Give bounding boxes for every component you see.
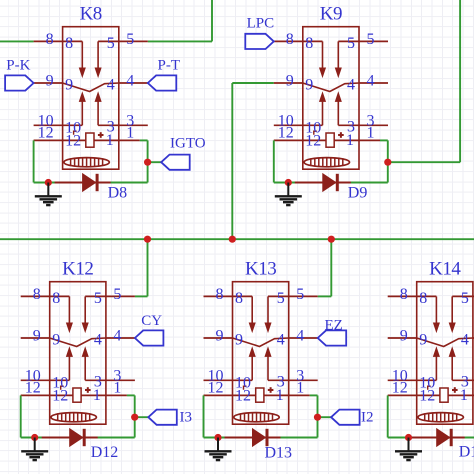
svg-text:4: 4 (347, 77, 355, 94)
svg-text:12: 12 (305, 132, 321, 149)
svg-text:12: 12 (38, 124, 54, 141)
svg-text:1: 1 (106, 132, 114, 149)
svg-text:9: 9 (419, 332, 427, 349)
svg-text:8: 8 (286, 31, 294, 48)
svg-text:9: 9 (235, 332, 243, 349)
svg-text:1: 1 (346, 132, 354, 149)
svg-text:9: 9 (65, 77, 73, 94)
svg-text:5: 5 (113, 286, 121, 303)
svg-text:I3: I3 (180, 410, 193, 426)
svg-text:5: 5 (277, 290, 285, 307)
svg-text:4: 4 (367, 73, 375, 90)
svg-text:EZ: EZ (325, 318, 343, 334)
svg-text:12: 12 (278, 124, 294, 141)
svg-text:D14: D14 (459, 444, 474, 461)
svg-text:4: 4 (277, 332, 285, 349)
svg-text:1: 1 (460, 387, 468, 404)
svg-text:P-K: P-K (6, 58, 30, 74)
svg-text:8: 8 (65, 35, 73, 52)
svg-text:1: 1 (367, 124, 375, 141)
svg-text:IGTO: IGTO (170, 136, 206, 152)
svg-text:12: 12 (25, 379, 41, 396)
svg-text:12: 12 (235, 387, 251, 404)
svg-text:4: 4 (126, 73, 134, 90)
svg-text:5: 5 (367, 31, 375, 48)
svg-text:9: 9 (46, 73, 54, 90)
svg-text:K8: K8 (80, 4, 102, 25)
svg-text:1: 1 (296, 379, 304, 396)
svg-text:4: 4 (113, 328, 121, 345)
svg-text:D12: D12 (91, 444, 119, 461)
svg-text:1: 1 (93, 387, 101, 404)
svg-text:12: 12 (65, 132, 81, 149)
svg-text:9: 9 (286, 73, 294, 90)
svg-text:9: 9 (52, 332, 60, 349)
svg-text:P-T: P-T (158, 58, 181, 74)
svg-text:5: 5 (296, 286, 304, 303)
svg-text:K12: K12 (62, 259, 93, 280)
svg-text:9: 9 (216, 328, 224, 345)
svg-text:1: 1 (276, 387, 284, 404)
svg-text:8: 8 (419, 290, 427, 307)
svg-text:8: 8 (305, 35, 313, 52)
svg-text:5: 5 (94, 290, 102, 307)
svg-text:LPC: LPC (247, 15, 275, 31)
svg-text:D9: D9 (348, 185, 368, 202)
svg-text:1: 1 (113, 379, 121, 396)
svg-text:4: 4 (94, 332, 102, 349)
svg-text:CY: CY (141, 313, 162, 329)
svg-text:12: 12 (392, 379, 408, 396)
svg-text:D13: D13 (265, 445, 293, 462)
svg-text:9: 9 (305, 77, 313, 94)
svg-text:1: 1 (126, 124, 134, 141)
svg-text:4: 4 (107, 77, 115, 94)
svg-text:5: 5 (347, 35, 355, 52)
svg-text:K13: K13 (245, 259, 276, 280)
svg-text:8: 8 (52, 290, 60, 307)
svg-text:I2: I2 (361, 410, 374, 426)
svg-text:5: 5 (107, 35, 115, 52)
svg-text:8: 8 (235, 290, 243, 307)
svg-text:4: 4 (461, 332, 469, 349)
svg-text:8: 8 (33, 286, 41, 303)
svg-text:12: 12 (419, 387, 435, 404)
svg-text:9: 9 (400, 328, 408, 345)
svg-text:5: 5 (461, 290, 469, 307)
svg-text:4: 4 (296, 328, 304, 345)
svg-text:8: 8 (216, 286, 224, 303)
svg-text:D8: D8 (108, 185, 128, 202)
svg-text:9: 9 (33, 328, 41, 345)
svg-text:K9: K9 (320, 4, 342, 25)
svg-text:8: 8 (46, 31, 54, 48)
svg-text:12: 12 (52, 387, 68, 404)
svg-text:5: 5 (126, 31, 134, 48)
svg-text:8: 8 (400, 286, 408, 303)
svg-text:12: 12 (208, 379, 224, 396)
svg-text:K14: K14 (429, 259, 461, 280)
